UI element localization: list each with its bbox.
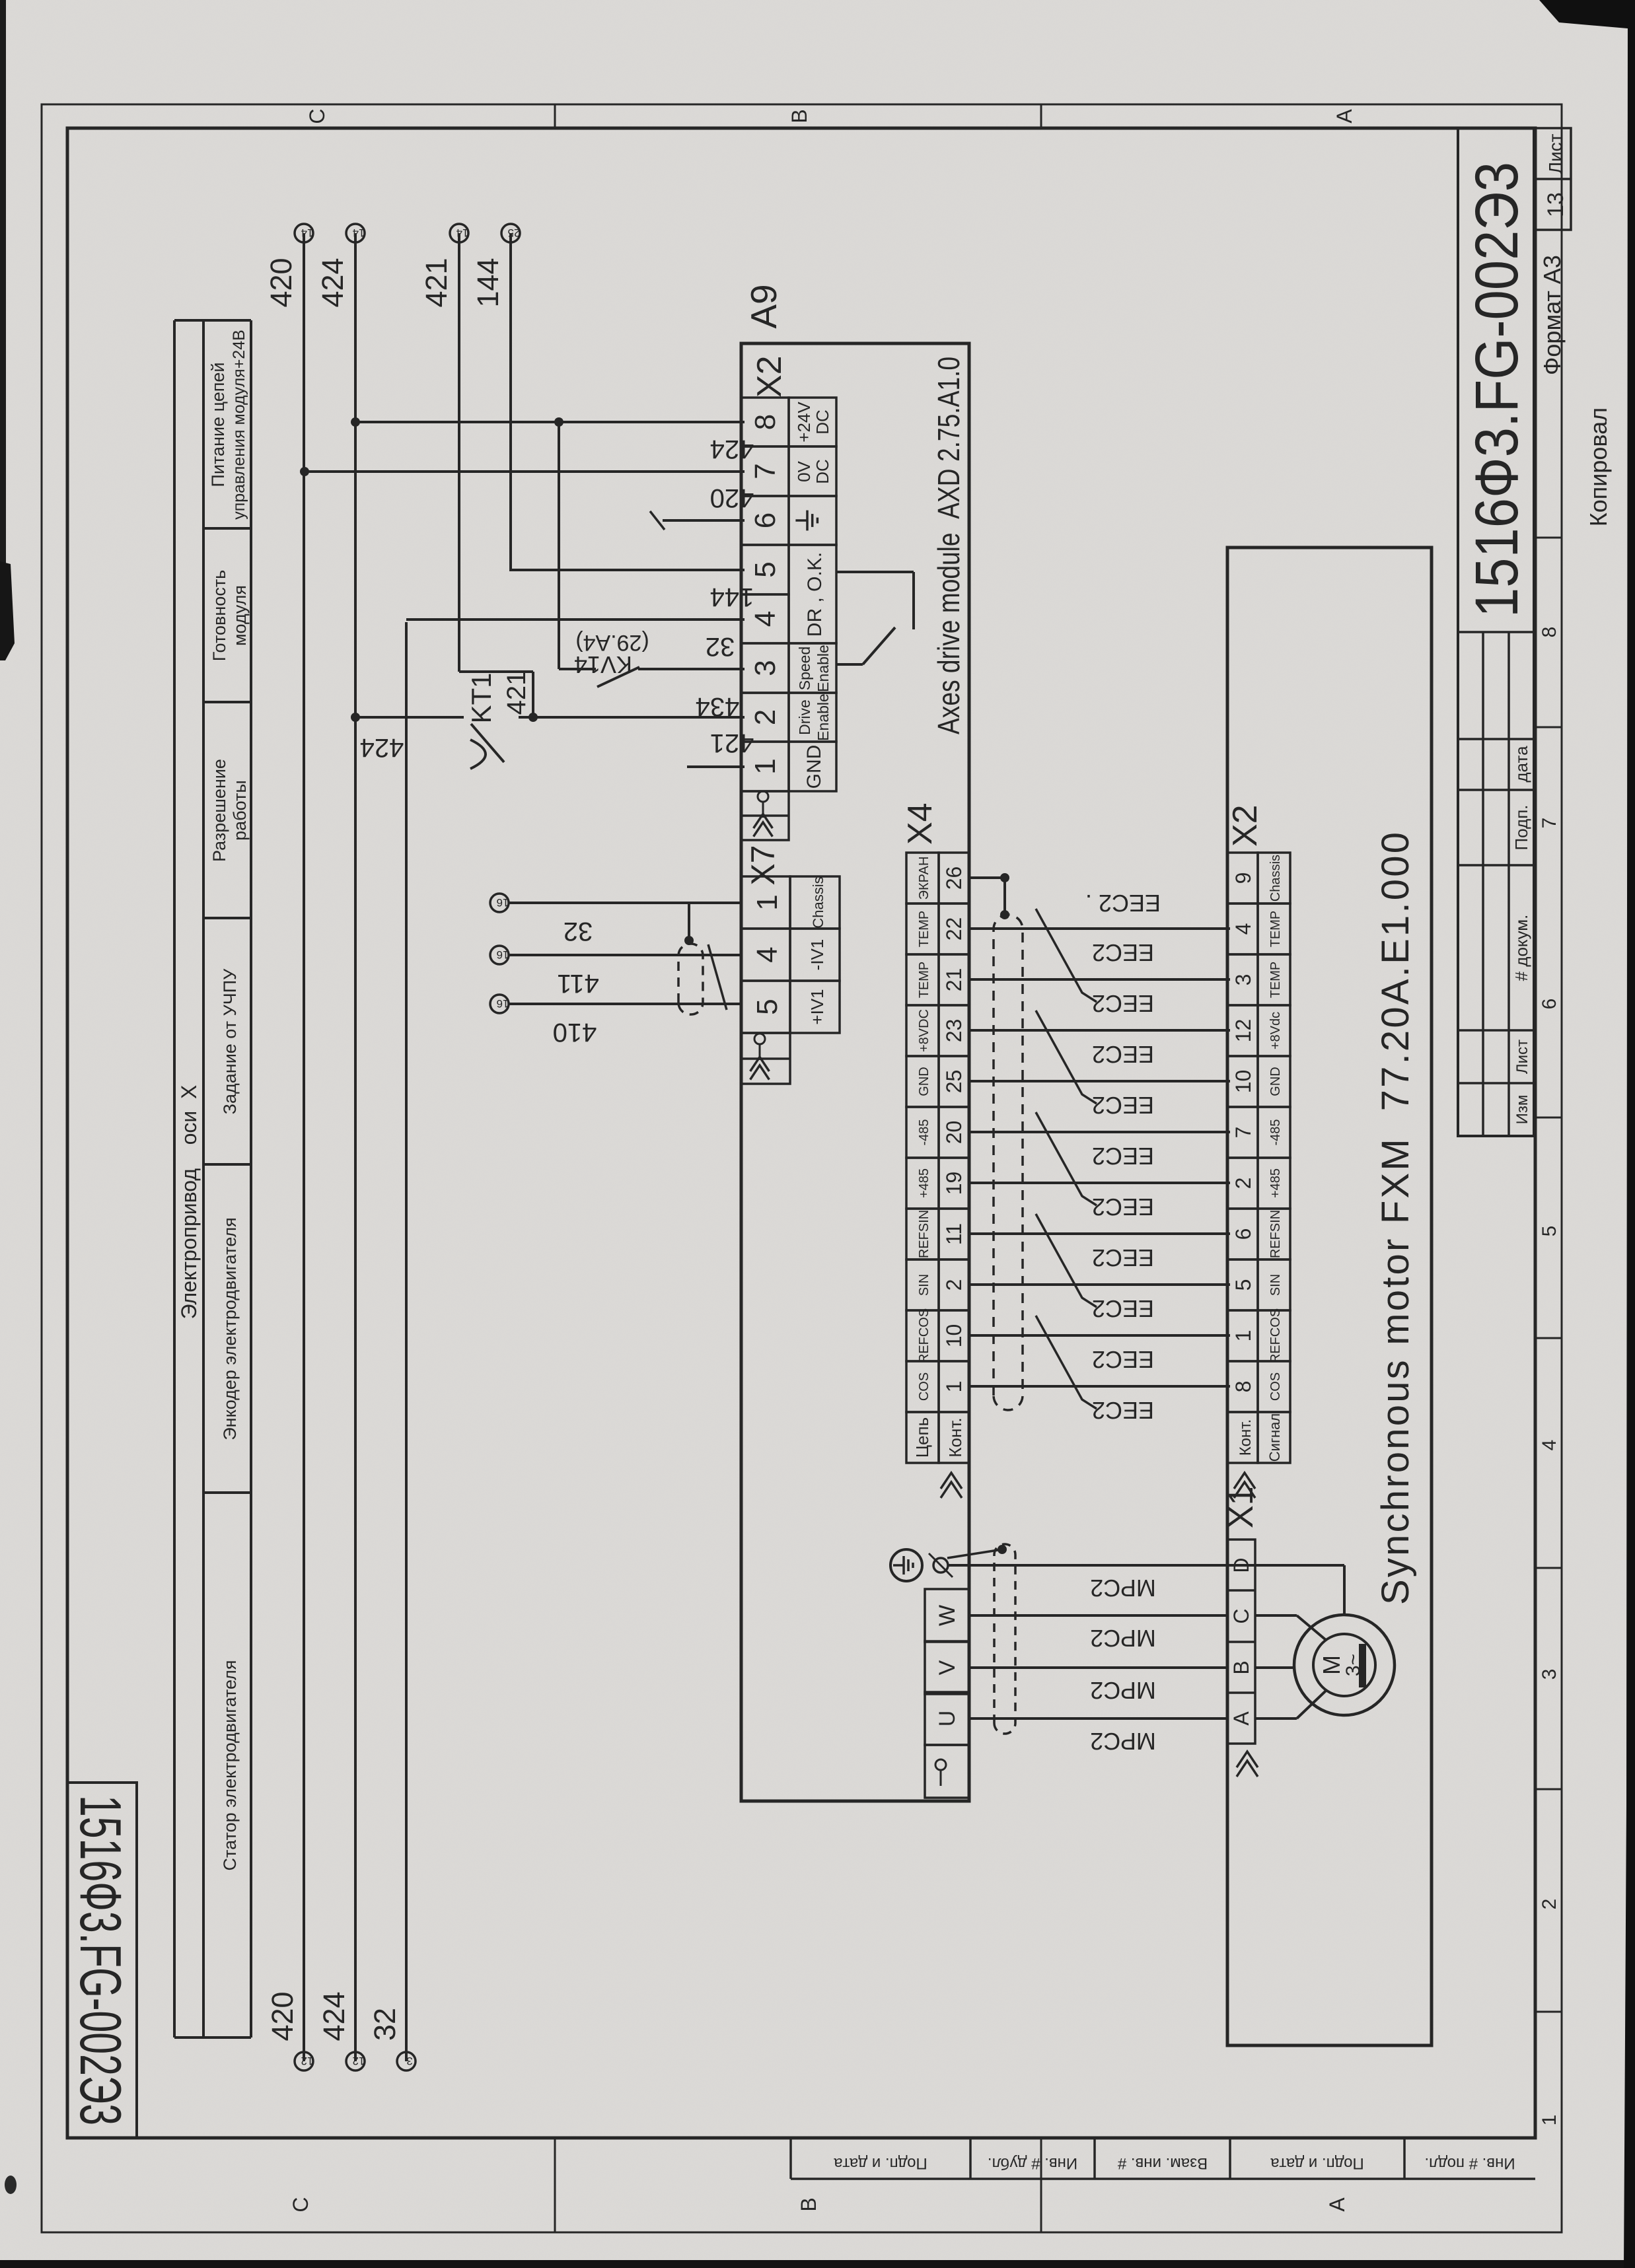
svg-text:работы: работы: [230, 780, 250, 841]
svg-text:ТЕМР: ТЕМР: [1268, 911, 1283, 948]
svg-text:M: M: [1318, 1655, 1345, 1675]
svg-text:DR , O.K.: DR , O.K.: [804, 552, 826, 637]
svg-text:6: 6: [749, 513, 781, 528]
svg-text:3: 3: [406, 2055, 412, 2067]
svg-text:2: 2: [1539, 1899, 1560, 1910]
svg-text:1: 1: [1231, 1330, 1255, 1342]
svg-text:421: 421: [710, 728, 754, 758]
svg-text:32: 32: [368, 2008, 402, 2041]
svg-text:ЕЕС2: ЕЕС2: [1092, 939, 1154, 966]
svg-text:управления модуля+24В: управления модуля+24В: [230, 330, 248, 520]
svg-text:424: 424: [710, 435, 754, 464]
svg-text:МРС2: МРС2: [1090, 1728, 1156, 1755]
svg-text:410: 410: [553, 1018, 597, 1047]
svg-text:12: 12: [353, 2055, 365, 2067]
svg-text:+8Vdc: +8Vdc: [1268, 1012, 1283, 1049]
svg-text:модуля: модуля: [230, 585, 250, 646]
svg-text:8: 8: [749, 414, 781, 430]
svg-text:Изм: Изм: [1513, 1095, 1531, 1125]
svg-text:5: 5: [751, 999, 783, 1014]
svg-text:8: 8: [1231, 1381, 1255, 1393]
svg-text:X2: X2: [1226, 804, 1264, 847]
svg-text:421: 421: [502, 671, 531, 715]
svg-text:19: 19: [942, 1172, 966, 1195]
svg-text:20: 20: [942, 1121, 966, 1145]
svg-text:Speed: Speed: [796, 647, 813, 691]
svg-text:REFCOS: REFCOS: [1268, 1308, 1283, 1363]
svg-text:ТЕМР: ТЕМР: [1268, 962, 1283, 999]
svg-text:32: 32: [706, 632, 735, 661]
svg-text:4: 4: [1231, 923, 1255, 935]
svg-text:Взам. инв. #: Взам. инв. #: [1117, 2154, 1208, 2172]
svg-text:Питание цепей: Питание цепей: [208, 363, 228, 487]
svg-text:C: C: [305, 108, 329, 124]
svg-text:ЕЕС2: ЕЕС2: [1092, 1092, 1154, 1119]
svg-text:1: 1: [749, 758, 781, 774]
svg-text:DC: DC: [813, 409, 832, 435]
svg-text:A: A: [1325, 2197, 1349, 2212]
svg-text:GND: GND: [917, 1067, 931, 1096]
svg-text:5: 5: [1231, 1279, 1255, 1291]
svg-text:10: 10: [942, 1324, 966, 1348]
svg-text:2: 2: [1231, 1178, 1255, 1189]
svg-text:REFSIN: REFSIN: [1268, 1210, 1283, 1258]
svg-text:ЕЕС2: ЕЕС2: [1092, 1244, 1154, 1271]
svg-text:Сигнал: Сигнал: [1266, 1413, 1283, 1462]
svg-text:ЕЕС2: ЕЕС2: [1092, 1295, 1154, 1322]
svg-text:ЕЕС2: ЕЕС2: [1092, 1346, 1154, 1373]
svg-text:6: 6: [1231, 1228, 1255, 1240]
svg-text:ЕЕС2: ЕЕС2: [1092, 1143, 1154, 1170]
svg-text:DC: DC: [813, 459, 832, 484]
svg-text:6: 6: [1539, 999, 1560, 1010]
svg-text:Chassis: Chassis: [1268, 855, 1283, 902]
svg-text:Готовность: Готовность: [209, 570, 229, 662]
svg-text:22: 22: [942, 917, 966, 941]
svg-text:-485: -485: [917, 1119, 931, 1145]
svg-text:Enable: Enable: [815, 693, 832, 741]
svg-text:21: 21: [942, 968, 966, 992]
svg-text:1: 1: [751, 894, 783, 910]
svg-text:+485: +485: [1268, 1168, 1283, 1198]
svg-text:434: 434: [696, 692, 740, 721]
svg-text:26: 26: [942, 867, 966, 890]
svg-text:ЕЕС2: ЕЕС2: [1092, 990, 1154, 1017]
svg-text:X1: X1: [1222, 1486, 1260, 1528]
svg-text:25: 25: [508, 227, 521, 239]
svg-text:Лист: Лист: [1513, 1040, 1531, 1074]
svg-text:W: W: [935, 1605, 960, 1626]
svg-text:4: 4: [1539, 1440, 1560, 1451]
svg-text:X7: X7: [745, 845, 781, 885]
svg-text:Копировал: Копировал: [1585, 408, 1612, 526]
svg-text:1: 1: [1539, 2115, 1560, 2126]
svg-text:C: C: [1229, 1608, 1253, 1623]
svg-text:144: 144: [471, 258, 505, 307]
svg-text:ЕЕС2 .: ЕЕС2 .: [1085, 890, 1161, 917]
svg-text:16: 16: [497, 948, 509, 961]
svg-text:ТЕМР: ТЕМР: [917, 911, 931, 948]
svg-text:Подп. и дата: Подп. и дата: [834, 2154, 927, 2172]
svg-text:REFSIN: REFSIN: [917, 1210, 931, 1258]
svg-text:16: 16: [497, 896, 509, 909]
svg-text:KT1: KT1: [466, 672, 497, 723]
svg-text:Статор электродвигателя: Статор электродвигателя: [220, 1660, 240, 1871]
svg-text:411: 411: [557, 969, 599, 998]
svg-text:2: 2: [749, 709, 781, 725]
svg-text:7: 7: [1539, 818, 1560, 829]
svg-text:424: 424: [317, 1991, 351, 2041]
svg-text:Электропривод оси X: Электропривод оси X: [177, 1085, 201, 1320]
svg-text:ТЕМР: ТЕМР: [917, 962, 931, 999]
svg-text:Подп. и дата: Подп. и дата: [1270, 2154, 1364, 2172]
svg-text:5: 5: [749, 561, 781, 577]
svg-text:9: 9: [1231, 872, 1255, 884]
svg-text:420: 420: [264, 258, 298, 307]
svg-text:420: 420: [710, 483, 754, 513]
svg-text:10: 10: [1231, 1070, 1255, 1094]
svg-text:Энкодер электродвигателя: Энкодер электродвигателя: [220, 1217, 240, 1440]
svg-text:1516Ф3.FG-002Э3: 1516Ф3.FG-002Э3: [1463, 162, 1531, 618]
svg-text:(29.А4): (29.А4): [575, 630, 649, 655]
svg-text:+485: +485: [917, 1168, 931, 1198]
svg-text:14: 14: [456, 227, 469, 239]
svg-text:REFCOS: REFCOS: [917, 1308, 931, 1363]
svg-text:+IV1: +IV1: [807, 989, 827, 1024]
svg-text:COS: COS: [917, 1372, 931, 1401]
svg-text:14: 14: [301, 227, 314, 239]
svg-text:144: 144: [710, 583, 754, 612]
svg-text:ЕЕС2: ЕЕС2: [1092, 1193, 1154, 1221]
svg-text:7: 7: [749, 463, 781, 479]
svg-text:Enable: Enable: [815, 645, 832, 692]
svg-text:13: 13: [1543, 192, 1568, 217]
svg-text:+8VDC: +8VDC: [917, 1009, 931, 1052]
svg-text:Drive: Drive: [796, 699, 813, 735]
svg-text:424: 424: [360, 733, 404, 762]
svg-text:2: 2: [942, 1279, 966, 1291]
svg-text:Разрешение: Разрешение: [209, 759, 229, 862]
svg-text:23: 23: [942, 1019, 966, 1043]
svg-text:1: 1: [942, 1381, 966, 1393]
svg-text:ЕЕС2: ЕЕС2: [1092, 1397, 1154, 1424]
svg-text:V: V: [935, 1660, 960, 1675]
svg-text:# докум.: # докум.: [1511, 915, 1531, 981]
svg-text:Формат А3: Формат А3: [1539, 255, 1566, 375]
svg-text:3: 3: [749, 660, 781, 676]
svg-text:32: 32: [563, 917, 593, 946]
svg-text:Конт.: Конт.: [945, 1417, 965, 1457]
svg-text:424: 424: [316, 258, 349, 307]
svg-text:A: A: [1229, 1711, 1253, 1726]
svg-text:COS: COS: [1268, 1372, 1283, 1401]
svg-text:Chassis: Chassis: [810, 876, 826, 928]
svg-text:МРС2: МРС2: [1090, 1575, 1156, 1602]
svg-text:X2: X2: [750, 355, 789, 398]
svg-text:B: B: [1229, 1660, 1253, 1674]
svg-text:11: 11: [942, 1223, 966, 1245]
svg-text:Axes drive module AXD 2.75.A1: Axes drive module AXD 2.75.A1.0: [931, 357, 966, 734]
svg-text:ЕЕС2: ЕЕС2: [1092, 1041, 1154, 1068]
svg-text:SIN: SIN: [917, 1274, 931, 1296]
svg-text:A9: A9: [743, 284, 784, 328]
svg-text:A: A: [1332, 109, 1356, 124]
svg-text:1516Ф3.FG-002Э3: 1516Ф3.FG-002Э3: [68, 1795, 133, 2125]
svg-text:B: B: [787, 109, 811, 123]
svg-text:Инв. # подл.: Инв. # подл.: [1424, 2154, 1515, 2172]
svg-text:МРС2: МРС2: [1090, 1677, 1156, 1704]
svg-text:16: 16: [497, 997, 509, 1010]
svg-text:8: 8: [1539, 627, 1560, 638]
svg-text:0V: 0V: [794, 460, 814, 481]
svg-text:4: 4: [749, 611, 781, 627]
svg-text:Цепь: Цепь: [912, 1417, 932, 1458]
svg-text:X4: X4: [901, 802, 939, 845]
svg-text:Подп.: Подп.: [1511, 804, 1531, 850]
svg-text:Лист: Лист: [1545, 133, 1566, 174]
svg-text:Конт.: Конт.: [1237, 1419, 1254, 1456]
svg-text:дата: дата: [1511, 746, 1531, 783]
svg-text:-IV1: -IV1: [807, 939, 827, 971]
svg-text:GND: GND: [803, 745, 825, 789]
svg-text:12: 12: [301, 2055, 314, 2067]
svg-text:ЭКРАН: ЭКРАН: [917, 857, 931, 900]
svg-text:3: 3: [1231, 974, 1255, 986]
svg-text:МРС2: МРС2: [1090, 1625, 1156, 1652]
svg-text:U: U: [935, 1711, 960, 1727]
svg-text:+24V: +24V: [794, 402, 814, 443]
svg-text:GND: GND: [1268, 1067, 1283, 1096]
svg-text:25: 25: [942, 1070, 966, 1094]
svg-text:Задание от УЧПУ: Задание от УЧПУ: [220, 968, 240, 1114]
svg-text:7: 7: [1231, 1127, 1255, 1139]
svg-text:421: 421: [419, 258, 453, 307]
svg-text:Инв. # дубл.: Инв. # дубл.: [988, 2154, 1077, 2172]
svg-text:5: 5: [1539, 1226, 1560, 1237]
svg-text:SIN: SIN: [1268, 1274, 1283, 1296]
svg-text:B: B: [797, 2197, 820, 2211]
svg-text:3: 3: [1539, 1669, 1560, 1680]
svg-text:C: C: [289, 2197, 312, 2212]
svg-text:12: 12: [1231, 1019, 1255, 1043]
svg-text:4: 4: [751, 946, 783, 962]
svg-text:420: 420: [266, 1991, 299, 2041]
svg-text:-485: -485: [1268, 1119, 1283, 1145]
svg-text:14: 14: [353, 227, 365, 239]
